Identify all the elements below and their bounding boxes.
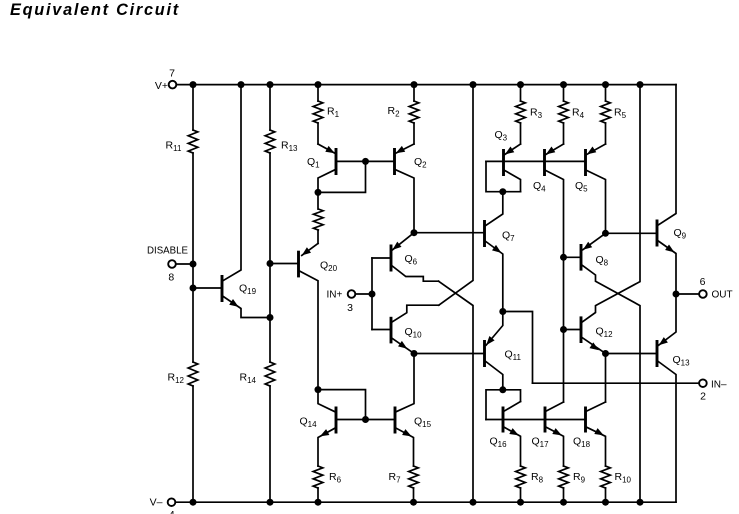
resistor R4 [559,85,569,144]
svg-text:7: 7 [169,68,175,80]
wire V+ rail (pin 7 to top-right corner) [176,84,676,86]
svg-text:Q12: Q12 [596,326,614,340]
transistor Q10 [391,305,439,353]
transistor Q20 [270,243,318,389]
svg-text:R6: R6 [329,471,342,485]
junction Q19 base node [190,285,197,292]
svg-text:Q16: Q16 [490,436,508,450]
resistor R8 [516,466,526,502]
svg-text:V+: V+ [155,80,168,92]
terminal DISABLE pin 8 [168,260,176,268]
svg-text:OUT: OUT [712,290,733,301]
svg-text:Q4: Q4 [533,180,546,194]
wire Q6 base [372,257,391,259]
junction V+ rail x=640 [637,81,644,88]
svg-text:Q14: Q14 [300,416,318,430]
wire Q8 base [564,256,582,258]
junction V- rail x=640 [637,499,644,506]
transistor Q11 [485,312,503,390]
wire Q11 base line [414,353,485,355]
junction V- rail x=563.5 [560,499,567,506]
wire Q10 collector cross to V+ column [439,85,473,306]
svg-text:R4: R4 [572,107,585,121]
resistor R2 [409,85,419,144]
junction V+ rail x=318 [315,81,322,88]
wire Q1 collector to base link [318,161,366,192]
svg-text:R7: R7 [389,471,402,485]
transistor Q18 [586,402,606,466]
junction Q20 base node on R13/R14 [267,260,274,267]
wire V- rail (pin 4 to bottom-right corner) [175,501,676,503]
junction OUT node [673,291,680,298]
junction V- rail x=413.5 [410,499,417,506]
junction V- rail x=520.5 [517,499,524,506]
transistor Q7 [485,192,503,312]
transistor Q6 [391,233,439,282]
svg-text:R1: R1 [327,106,340,120]
transistor Q2 [395,144,415,233]
junction Q19 emitter node on R13/R14 [267,314,274,321]
junction V+ rail x=270 [267,81,274,88]
svg-text:Q6: Q6 [405,253,418,267]
svg-text:Q17: Q17 [532,436,550,450]
wire Q3-Q4-Q5 base line [486,160,586,162]
transistor Q17 [545,402,564,466]
svg-text:V–: V– [150,497,163,509]
junction V- rail x=193 [190,499,197,506]
wire Q9 base line [606,232,658,234]
svg-text:4: 4 [169,509,175,514]
transistor Q16 [503,402,521,467]
resistor R10 [601,466,611,502]
junction Q11 collector / mirror node [499,386,506,393]
junction V- rail x=270 [267,499,274,506]
wire IN+ vertical (Q6 base to Q10 base) [371,258,373,330]
resistor R14 [265,318,275,503]
svg-text:8: 8 [168,272,174,284]
title: Equivalent Circuit [10,1,180,20]
transistor Q12 [581,85,640,354]
wire Q10 base [372,329,391,331]
resistor R3 [516,85,526,144]
wire OUT to node [676,293,699,295]
svg-text:Q1: Q1 [307,156,320,170]
transistor Q14 [318,390,366,466]
junction Q12 emitter / Q13 base node [602,350,609,357]
svg-text:Q9: Q9 [674,227,687,241]
wire IN- line [533,382,700,384]
wire R11/R12 node to Q19 base tap [192,264,194,288]
junction V- rail x=318 [315,499,322,506]
resistor R11 [188,85,198,264]
svg-text:R2: R2 [388,105,401,119]
svg-text:3: 3 [347,302,353,314]
wire Q16 fold left branch (to base line) [486,390,503,420]
svg-text:IN–: IN– [711,380,727,391]
terminal IN- pin 2 [699,379,707,387]
transistor Q9 [657,85,676,294]
wire DISABLE to node [176,263,193,265]
svg-text:R12: R12 [168,372,185,386]
junction Q14/Q15 base node [362,416,369,423]
junction V+ rail x=193 [190,81,197,88]
svg-text:R8: R8 [531,471,544,485]
junction V+ rail x=414 [411,81,418,88]
junction Q1 collector node [315,189,322,196]
junction Q12 base node [560,326,567,333]
svg-text:R14: R14 [240,372,257,386]
svg-text:IN+: IN+ [327,290,343,301]
svg-text:Q18: Q18 [573,436,591,450]
resistor R13 [265,85,275,264]
svg-text:Q11: Q11 [505,349,522,363]
svg-text:2: 2 [700,391,706,403]
wire Q3 collector-base fold [486,161,521,191]
junction V+ rail x=563.5 [560,81,567,88]
svg-text:DISABLE: DISABLE [147,246,188,257]
wire Q16 fold right branch (collector) [503,390,521,402]
svg-text:6: 6 [700,276,706,288]
svg-text:Q3: Q3 [495,129,508,143]
resistor R1 [313,85,323,144]
svg-text:Q2: Q2 [414,156,427,170]
junction Q1/Q2 base node [362,158,369,165]
junction Q14 collector node [315,386,322,393]
transistor Q15 [366,354,415,467]
svg-text:R11: R11 [166,140,182,154]
svg-text:R13: R13 [281,140,298,154]
resistor R7 [409,466,419,502]
junction IN+ node [369,291,376,298]
junction V- rail x=605.5 [602,499,609,506]
wire Q12 base [564,329,582,331]
wire emitter node to IN- line [503,312,533,384]
wire Q1-Q2 base line [366,160,395,162]
junction Q8 base node [560,254,567,261]
svg-text:Q10: Q10 [405,326,423,340]
wire Q13 base line [606,353,658,355]
resistor (unlabeled) below Q1 [314,192,324,243]
junction V+ rail x=241 [238,81,245,88]
wire R13 to R14 node [269,264,271,318]
terminal V- pin 4 [168,498,176,506]
junction DISABLE node [190,261,197,268]
resistor R5 [601,85,611,144]
svg-text:Q19: Q19 [239,283,257,297]
junction Q5 collector / Q8 emitter / Q9 base node [602,230,609,237]
svg-text:Q7: Q7 [502,230,515,244]
junction Q2 collector / Q6 emitter / Q7 base node [411,229,418,236]
svg-text:Q8: Q8 [596,254,609,268]
terminal OUT pin 6 [699,290,707,298]
wire Q16-Q17-Q18 base line [486,419,586,421]
transistor Q4 [545,144,564,402]
svg-text:R5: R5 [614,107,627,121]
svg-text:Q15: Q15 [414,416,432,430]
wire Q6 collector cross to V- column [439,281,474,502]
svg-text:Q13: Q13 [673,354,691,368]
resistor R12 [188,288,198,502]
wire Q7 base line [414,232,485,234]
transistor Q3 [504,144,521,192]
svg-text:Q20: Q20 [320,260,338,274]
junction Q3 collector / Q7 collector node [499,188,506,195]
terminal IN+ pin 3 [348,290,356,298]
resistor R6 [313,466,323,502]
svg-text:Q5: Q5 [575,180,588,194]
junction V+ rail x=605.5 [602,81,609,88]
junction V- rail x=473 [470,499,477,506]
wire IN+ to node [356,293,373,295]
junction Q7/Q11 emitter node [499,308,506,315]
wire Q14 collector-base fold [318,390,366,420]
junction Q10 emitter / Q11 base / Q15 collector node [411,350,418,357]
terminal V+ pin 7 [169,81,177,89]
wire Q12 emitter node down to Q18 collector [605,354,607,403]
transistor Q5 [586,144,606,233]
transistor Q1 [318,144,366,192]
svg-text:R9: R9 [573,471,586,485]
transistor Q19 [222,85,270,318]
wire Q19 base from DISABLE node [193,287,222,289]
resistor R9 [559,466,569,502]
transistor Q8 [581,233,640,502]
junction V+ rail x=473 [470,81,477,88]
svg-text:R10: R10 [615,471,632,485]
transistor Q13 [657,294,676,502]
svg-text:R3: R3 [530,107,543,121]
junction V+ rail x=520.5 [517,81,524,88]
